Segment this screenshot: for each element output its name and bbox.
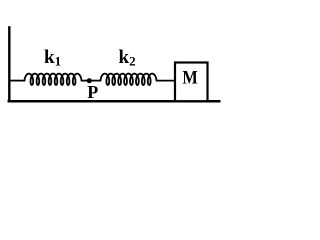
svg-text:M: M	[182, 68, 197, 89]
svg-text:k1: k1	[44, 47, 61, 68]
svg-text:P: P	[87, 82, 98, 102]
node P dot	[87, 78, 92, 83]
wire spring k1 to node P	[81, 80, 88, 82]
spring k2	[101, 74, 157, 85]
wall	[8, 26, 10, 101]
spring k1	[25, 74, 82, 85]
floor	[8, 100, 221, 103]
mass M box	[175, 63, 208, 102]
svg-text:k2: k2	[119, 47, 136, 68]
wire spring k2 to mass M	[156, 80, 175, 82]
wire node P to spring k2	[90, 80, 101, 82]
wire wall to spring k1	[10, 80, 25, 82]
